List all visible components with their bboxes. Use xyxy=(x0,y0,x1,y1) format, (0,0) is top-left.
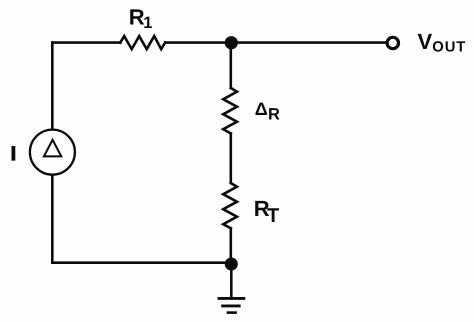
svg-text:T: T xyxy=(267,205,279,227)
resistor delta-R xyxy=(223,88,237,134)
current source U1 circle xyxy=(30,130,75,175)
current source U1 triangle xyxy=(44,140,61,157)
wire delta-R to RT xyxy=(230,134,233,184)
label delta-R xyxy=(255,99,280,123)
Vout open terminal xyxy=(387,37,398,48)
resistor RT xyxy=(223,183,237,228)
ground bar 1 xyxy=(219,297,244,300)
svg-text:1: 1 xyxy=(143,14,152,32)
label I xyxy=(12,146,16,161)
ground bar 3 xyxy=(228,311,236,314)
node A junction dot xyxy=(225,36,238,49)
svg-text:Δ: Δ xyxy=(255,99,268,119)
svg-text:OUT: OUT xyxy=(432,39,466,55)
wire R1 to node A xyxy=(165,41,231,44)
wire node A to Vout terminal xyxy=(231,41,386,44)
label Vout xyxy=(418,29,467,56)
label R1 xyxy=(129,5,153,32)
ground bar 2 xyxy=(223,304,240,307)
label RT xyxy=(254,196,279,227)
svg-text:V: V xyxy=(418,29,433,54)
resistor R1 xyxy=(120,36,165,49)
wire bottom horizontal xyxy=(52,261,231,264)
wire RT to node B xyxy=(230,228,233,262)
wire node A down to delta-R xyxy=(230,43,233,88)
wire left vertical lower xyxy=(51,175,54,263)
wire left vertical upper xyxy=(51,43,54,130)
node B junction dot xyxy=(225,258,238,271)
ground stub wire xyxy=(230,263,233,297)
svg-text:R: R xyxy=(268,105,280,123)
wire top-left horizontal xyxy=(52,41,120,44)
